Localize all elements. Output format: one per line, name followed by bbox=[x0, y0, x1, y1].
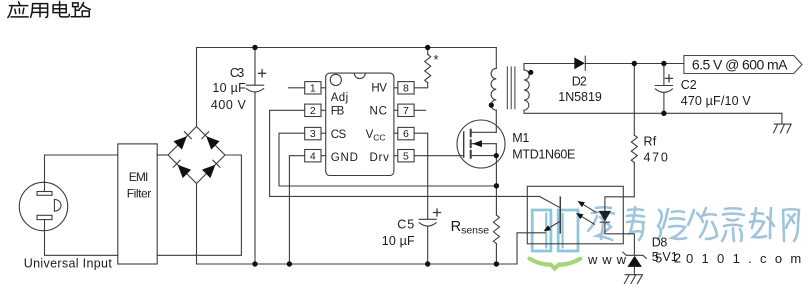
svg-text:EMI: EMI bbox=[129, 170, 149, 184]
wire HV top rail bbox=[197, 47, 497, 49]
svg-text:Universal Input: Universal Input bbox=[24, 257, 113, 271]
wire MOSFET source down to Rsense bbox=[495, 156, 497, 216]
svg-text:www: www bbox=[587, 252, 631, 267]
wire pin 4 GND to ground rail bbox=[289, 156, 304, 264]
transformer T1 core bbox=[507, 67, 515, 109]
wire bridge bottom vertex to primary ground rail bbox=[196, 184, 198, 265]
bridge diode top-right bbox=[206, 136, 219, 149]
wire pin 2 FB to optocoupler collector bbox=[270, 110, 540, 196]
title 应用电路 (Application Circuit) drawn as strokes bbox=[8, 1, 90, 17]
svg-text:NC: NC bbox=[370, 106, 387, 118]
capacitor C5 bbox=[419, 209, 440, 226]
svg-text:FB: FB bbox=[331, 106, 345, 118]
svg-text:C5: C5 bbox=[397, 218, 414, 232]
svg-text:MTD1N60E: MTD1N60E bbox=[512, 147, 575, 161]
bridge diode bottom-right bbox=[202, 165, 215, 178]
svg-text:5: 5 bbox=[403, 150, 409, 162]
svg-text:10 µF: 10 µF bbox=[382, 234, 415, 248]
svg-text:GND: GND bbox=[331, 152, 358, 164]
svg-text:HV: HV bbox=[371, 82, 387, 94]
junction node MOSFET source body bbox=[494, 153, 499, 158]
wire output node down to Rf bbox=[633, 64, 635, 136]
junction node ground / Rsense bbox=[494, 261, 499, 266]
ground secondary (output) bbox=[774, 124, 792, 133]
plug Universal Input connector bbox=[19, 182, 67, 230]
junction node HV rail / C3 bbox=[252, 45, 257, 50]
watermark url text www jdwx0101.com bbox=[587, 251, 808, 268]
pin box 1 bbox=[305, 82, 321, 94]
bridge diode bottom-left bbox=[178, 165, 191, 178]
wire pin 5 Drv to MOSFET gate bbox=[414, 155, 464, 157]
junction node source / CS / Rsense bbox=[494, 183, 499, 188]
pin box 3 bbox=[305, 127, 321, 139]
IC U1 body bbox=[326, 73, 394, 175]
pin box 2 bbox=[305, 104, 321, 116]
svg-text:1N5819: 1N5819 bbox=[558, 90, 602, 104]
svg-text:10 µF: 10 µF bbox=[212, 81, 246, 95]
svg-text:3: 3 bbox=[310, 128, 316, 140]
diode D2 bbox=[574, 56, 585, 70]
svg-text:470: 470 bbox=[644, 150, 668, 164]
junction node ground / C3 bbox=[252, 261, 257, 266]
EMI filter block bbox=[118, 144, 157, 264]
optocoupler LED bbox=[599, 211, 611, 222]
svg-text:C3: C3 bbox=[230, 66, 244, 80]
ground D8 (secondary) bbox=[624, 275, 642, 284]
pin box 8 bbox=[398, 82, 414, 94]
wire transformer secondary bottom to output return rail bbox=[524, 110, 782, 113]
svg-text:1: 1 bbox=[310, 82, 316, 94]
wire AC line from plug top to EMI filter bbox=[45, 155, 118, 192]
junction node C2 bottom / return rail bbox=[661, 111, 666, 116]
junction node D2 / Rf bbox=[632, 61, 637, 66]
svg-text:Rf: Rf bbox=[644, 134, 657, 148]
svg-text:Adj: Adj bbox=[331, 92, 349, 104]
svg-text:*: * bbox=[434, 52, 439, 67]
wire C2 top connection bbox=[663, 64, 665, 86]
svg-text:6: 6 bbox=[403, 128, 409, 140]
capacitor C3 bbox=[246, 70, 265, 92]
svg-text:Drv: Drv bbox=[370, 152, 390, 164]
pin box 5 bbox=[398, 150, 414, 162]
pin box 7 bbox=[398, 104, 414, 116]
wire transformer secondary top to D2 anode bbox=[524, 64, 574, 70]
wire pin 7 stub bbox=[414, 109, 425, 111]
svg-text:470 µF/10 V: 470 µF/10 V bbox=[681, 94, 752, 108]
watermark calligraphy 家电维修资料网 bbox=[588, 207, 799, 241]
svg-text:4: 4 bbox=[310, 150, 316, 162]
wire startup resistor bottom to pin 8 HV bbox=[414, 83, 428, 88]
wire HV rail down to transformer primary bbox=[495, 48, 497, 69]
wire C5 bottom to ground rail bbox=[427, 226, 429, 264]
svg-text:2: 2 bbox=[310, 105, 316, 117]
wire primary ground rail bbox=[197, 263, 518, 265]
svg-text:6.5 V @ 600 mA: 6.5 V @ 600 mA bbox=[692, 56, 788, 72]
optocoupler phototransistor bbox=[539, 196, 560, 233]
wire EMI filter bottom to bridge right vertex bbox=[157, 155, 241, 255]
svg-text:8: 8 bbox=[403, 82, 409, 94]
wire AC neutral from plug bottom to EMI filter bbox=[45, 220, 118, 256]
wire pin 1 stub bbox=[289, 87, 305, 89]
wire pin 6 VCC to C5 bbox=[414, 133, 428, 219]
wire C2 bottom to return rail bbox=[663, 93, 665, 114]
svg-text:D2: D2 bbox=[572, 74, 587, 88]
capacitor C2 bbox=[655, 75, 672, 92]
wire EMI filter to bridge left vertex bbox=[157, 154, 168, 156]
wire pin 3 CS to MOSFET source node bbox=[279, 133, 496, 186]
svg-text:M1: M1 bbox=[512, 131, 529, 145]
svg-text:5 V1: 5 V1 bbox=[652, 250, 678, 264]
junction node output / C2 bbox=[661, 61, 666, 66]
bridge rectifier BR1 diamond bbox=[168, 127, 225, 184]
junction node HV rail / startup resistor bbox=[425, 45, 430, 50]
svg-text:D8: D8 bbox=[652, 236, 668, 250]
wire D8 anode to secondary ground symbol bbox=[633, 267, 635, 275]
resistor startup R* bbox=[425, 54, 431, 82]
wire transformer primary bottom to MOSFET drain bbox=[495, 110, 497, 132]
wire output return to secondary ground bbox=[781, 113, 783, 124]
watermark book icon bbox=[530, 210, 581, 269]
junction node ground / C5 bbox=[425, 261, 430, 266]
transformer secondary phase dot bbox=[528, 70, 533, 75]
junction node ground / pin4 bbox=[287, 261, 292, 266]
resistor Rf bbox=[631, 135, 637, 162]
pin box 4 bbox=[305, 150, 321, 162]
svg-text:Filter: Filter bbox=[127, 187, 152, 201]
svg-text:0101.com: 0101.com bbox=[686, 251, 808, 266]
wire Rsense bottom to ground rail bbox=[495, 244, 497, 264]
zener diode D8 bbox=[623, 252, 647, 267]
transformer primary phase dot bbox=[489, 103, 494, 108]
svg-text:C2: C2 bbox=[681, 78, 697, 92]
transformer T1 primary winding bbox=[491, 68, 496, 110]
svg-text:400 V: 400 V bbox=[211, 98, 247, 112]
wire C3 bottom to ground rail bbox=[254, 93, 256, 264]
optocoupler U2 box bbox=[527, 186, 623, 244]
wire Rf bottom to opto LED anode bbox=[605, 163, 634, 211]
pin box 6 bbox=[398, 127, 414, 139]
svg-text:7: 7 bbox=[403, 105, 409, 117]
MOSFET M1 bbox=[457, 120, 505, 168]
transformer T1 secondary winding bbox=[524, 70, 529, 110]
resistor Rsense bbox=[493, 215, 499, 244]
svg-text:CS: CS bbox=[331, 129, 347, 141]
output flag 6.5V bbox=[684, 56, 802, 74]
wire bridge top vertex to HV rail bbox=[196, 48, 198, 127]
wire ground rail up to optocoupler emitter bbox=[517, 233, 545, 264]
wire startup resistor top bbox=[427, 48, 429, 55]
wire D2 cathode to output node bbox=[585, 63, 684, 65]
wire C3 top connection bbox=[254, 48, 256, 86]
wire opto LED cathode to D8 zener bbox=[605, 222, 635, 255]
bridge diode top-left bbox=[174, 136, 187, 149]
optocoupler light arrows bbox=[576, 201, 596, 224]
